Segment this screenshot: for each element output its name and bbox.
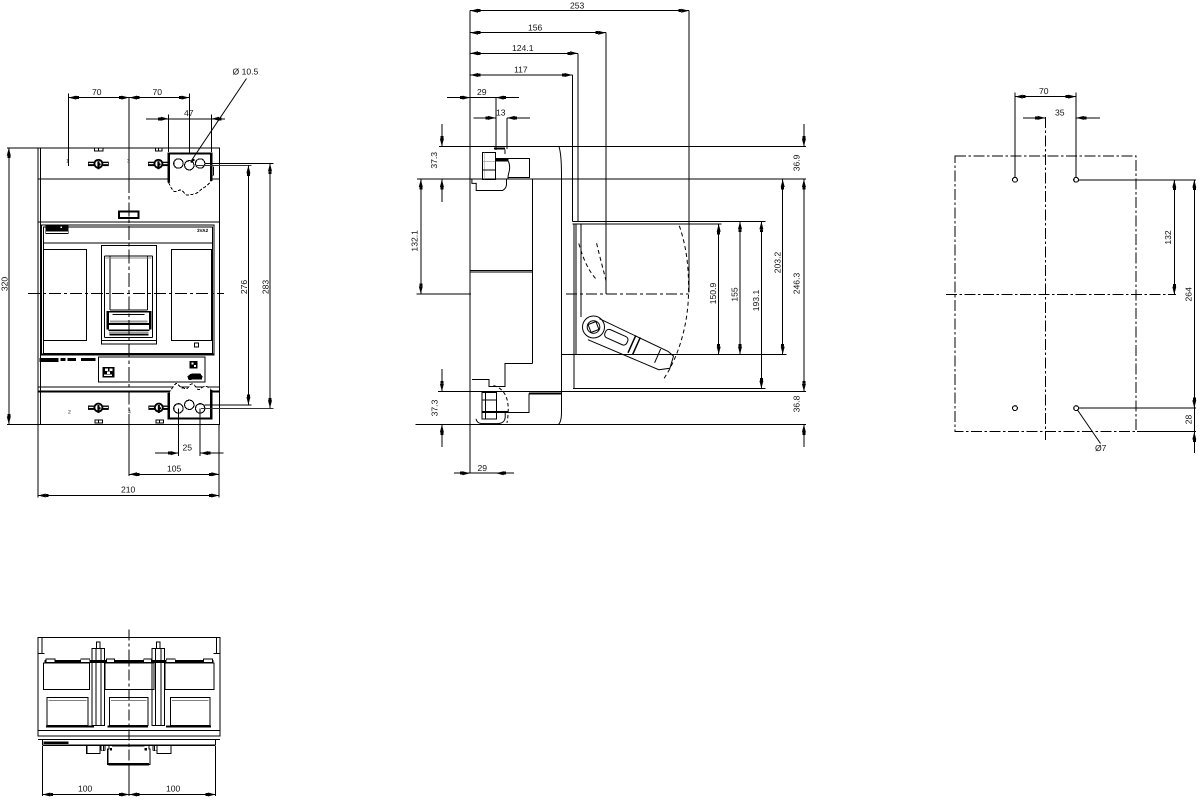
dim 28 <box>1137 431 1196 433</box>
terminal shelf plane <box>417 178 806 180</box>
front plate top edge <box>572 221 765 223</box>
hanging block left <box>87 746 100 754</box>
hanging block right <box>157 746 171 754</box>
dim 132.1 <box>417 293 471 295</box>
dim 283 <box>269 164 271 409</box>
handle travel arc right <box>663 226 689 380</box>
corner notch right <box>215 638 217 654</box>
cable slots <box>46 659 213 662</box>
rating window right <box>171 249 211 340</box>
seal blob <box>188 373 203 379</box>
bottom plane <box>416 423 806 425</box>
DIN clip top: tab <box>494 148 505 150</box>
terminal screw bottom right <box>148 404 169 413</box>
upper cavity pole 1 <box>44 663 90 690</box>
svg-text:70: 70 <box>92 87 102 97</box>
bottom step thick edge <box>529 392 562 394</box>
bottom vent slot right <box>156 420 164 423</box>
fixing hole bottom right <box>1074 406 1079 411</box>
dim 105 <box>218 424 220 497</box>
dim 25 <box>177 409 179 457</box>
svg-text:132.1: 132.1 <box>409 230 419 252</box>
svg-text:13: 13 <box>496 108 506 118</box>
dim ext right <box>215 746 217 796</box>
trip unit cover face <box>573 224 575 389</box>
svg-text:246.3: 246.3 <box>792 273 802 295</box>
dim 132 <box>1173 180 1175 295</box>
DIN clip top: side block <box>508 158 529 177</box>
dim 117 <box>470 74 572 76</box>
dim 29 bottom <box>454 472 470 474</box>
svg-text:203.2: 203.2 <box>772 252 782 274</box>
svg-text:100: 100 <box>78 784 93 794</box>
terminal hole centre (top) <box>185 161 194 170</box>
rear block bottom staircase <box>472 364 533 387</box>
dim 47 <box>168 115 170 153</box>
front plate face 117 <box>571 75 573 222</box>
DIN clip top: foot <box>472 179 507 190</box>
terminal hole left (bottom) <box>174 404 183 413</box>
detail bubble top: break wave <box>169 181 212 195</box>
svg-text:36.8: 36.8 <box>792 395 802 412</box>
dim 36.9 <box>803 124 805 147</box>
bottom step <box>508 393 529 412</box>
base bottom plane <box>438 391 806 393</box>
small slots left <box>101 746 105 751</box>
svg-text:155: 155 <box>730 287 740 302</box>
dim 320 <box>7 147 38 149</box>
svg-text:35: 35 <box>1055 108 1065 118</box>
black product label <box>46 226 69 232</box>
svg-text:29: 29 <box>477 87 487 97</box>
DIN rail dashed arc <box>494 386 509 423</box>
mounting flange <box>43 740 216 746</box>
dim 100 right <box>129 794 216 796</box>
dim 36.8 <box>803 424 805 447</box>
terminal screw bottom left <box>88 404 109 413</box>
horizontal centerline <box>28 293 224 295</box>
svg-text:156: 156 <box>528 22 543 32</box>
svg-text:Ø 10.5: Ø 10.5 <box>233 67 259 77</box>
dim 253 <box>470 10 689 12</box>
svg-text:193.1: 193.1 <box>751 290 761 312</box>
svg-text:320: 320 <box>0 277 10 292</box>
top vent slot left <box>95 148 103 151</box>
svg-text:28: 28 <box>1184 415 1194 425</box>
svg-text:36.9: 36.9 <box>792 154 802 171</box>
dim 210 <box>37 424 39 497</box>
terminal hole right (top) <box>196 159 205 168</box>
DIN clip top: thick bar <box>496 158 508 161</box>
dim 124.1 <box>470 52 578 54</box>
pole separator right <box>152 642 165 726</box>
test button square <box>194 343 198 347</box>
extension line 276 bottom <box>204 404 251 406</box>
escutcheon face 124.1 <box>577 53 579 221</box>
svg-text:105: 105 <box>167 464 182 474</box>
front view left inner edge <box>40 148 42 425</box>
bottom vent slot left <box>95 420 103 423</box>
detail bubble bottom: white mask <box>169 384 212 419</box>
small icon <box>189 361 197 369</box>
lower joint line <box>38 386 219 388</box>
top terminal strip bottom line <box>38 178 219 180</box>
handle max plane 156 <box>605 33 607 294</box>
dim 193.1 <box>760 222 762 389</box>
escutcheon bottom line <box>101 339 156 341</box>
pole separator left <box>92 642 104 726</box>
lower cavity pole 2 <box>110 698 149 726</box>
handle band <box>628 335 636 352</box>
dim 276 <box>247 165 249 404</box>
handle shaft <box>588 319 674 370</box>
case parting lines <box>471 270 533 272</box>
dim ext left <box>42 746 44 796</box>
hole extension top <box>1078 179 1196 181</box>
dim 37.3 bottom <box>441 369 443 392</box>
dim 100 left <box>43 794 130 796</box>
bottom view centerline <box>128 630 130 765</box>
detail bubble bottom: thick frame <box>169 390 212 418</box>
bottom view body outline <box>38 638 220 736</box>
svg-text:276: 276 <box>239 280 249 295</box>
front view case outline <box>38 148 219 425</box>
handle slot <box>604 328 630 346</box>
top vent slot right <box>155 148 162 151</box>
case front face <box>559 147 562 425</box>
terminal screw top right <box>148 160 169 169</box>
trip unit bottom edge <box>573 388 765 390</box>
bottom terminal strip top line <box>38 390 219 392</box>
window rect above handle <box>119 211 138 218</box>
center tab <box>108 746 150 765</box>
lower cavity pole 3 <box>170 698 210 726</box>
extension line 283 top <box>205 163 274 165</box>
flange black bar <box>44 742 69 744</box>
label strip line <box>43 242 212 244</box>
molding joint line <box>38 221 219 223</box>
DIN clip bottom: block <box>482 393 497 419</box>
hole extension bottom <box>1078 407 1196 409</box>
terminal hole centre (bottom) <box>185 400 194 409</box>
dim 70 left <box>67 94 69 167</box>
handle tip line <box>655 349 661 363</box>
handle boss outer <box>583 316 605 338</box>
escutcheon side line <box>580 224 582 317</box>
extension line 276 top <box>197 164 251 166</box>
terminal hole right (bottom) <box>196 404 205 413</box>
lower cavity pole 1 <box>47 698 88 726</box>
svg-text:29: 29 <box>478 463 488 473</box>
svg-text:Ø7: Ø7 <box>1095 443 1107 453</box>
strip label text bars <box>40 358 59 362</box>
toggle handle grip <box>106 312 151 335</box>
svg-text:70: 70 <box>1039 86 1049 96</box>
leader dia 7 <box>1078 410 1101 444</box>
handle slot frame <box>104 255 152 257</box>
dim 13 <box>506 118 508 149</box>
dim 155 <box>739 222 741 355</box>
dim 203.2 <box>782 179 784 354</box>
detail bubble bottom: break wave <box>169 383 212 393</box>
front plate bottom thick bar <box>41 353 214 355</box>
handle boss square <box>588 322 599 333</box>
dim 35 <box>1023 117 1046 119</box>
bottom thick bars <box>46 725 94 727</box>
upper cavity pole 3 <box>165 663 214 690</box>
DIN clip bottom: thick bar <box>482 411 508 413</box>
upper cavity pole 2 <box>105 663 154 690</box>
svg-text:264: 264 <box>1184 287 1194 302</box>
centerline vertical pole 2 <box>128 98 130 180</box>
drilling plan outline <box>955 156 1136 432</box>
svg-text:124.1: 124.1 <box>512 43 534 53</box>
dim 37.3 top <box>439 146 470 148</box>
dim 29 top <box>495 98 497 150</box>
svg-text:100: 100 <box>166 784 181 794</box>
handle centerline <box>566 293 689 295</box>
fixing hole top left <box>1013 177 1018 182</box>
svg-text:150.9: 150.9 <box>708 283 718 305</box>
fixing hole top right <box>1074 177 1079 182</box>
small slots right <box>153 746 157 751</box>
handle travel arc left b <box>597 243 607 282</box>
DIN clip top: block <box>483 152 496 179</box>
detail bubble top: thick frame <box>169 154 212 183</box>
DIN clip bottom: foot <box>476 413 505 424</box>
svg-text:37.3: 37.3 <box>429 152 439 169</box>
terminal shelf thick bar <box>45 660 214 663</box>
flange bottom edge <box>43 744 216 746</box>
svg-text:132: 132 <box>1163 230 1173 245</box>
svg-text:3VA2: 3VA2 <box>197 228 209 233</box>
top surface plane <box>439 146 806 148</box>
terminal hole left (top) <box>174 159 183 168</box>
plan vertical centerline <box>1044 117 1046 440</box>
svg-text:283: 283 <box>260 280 270 295</box>
plan horizontal centerline <box>946 294 1176 296</box>
breaker front plane 253 <box>688 11 690 293</box>
front plate outer <box>41 225 214 355</box>
detail bubble top: white mask <box>169 154 212 196</box>
extension line 283 bottom <box>201 407 274 409</box>
dim 150.9 <box>718 224 720 355</box>
svg-text:70: 70 <box>153 87 163 97</box>
svg-text:210: 210 <box>121 485 136 495</box>
handle boss inner <box>587 321 600 334</box>
svg-text:253: 253 <box>570 0 585 10</box>
dim 70 <box>1014 93 1016 178</box>
body lower lines <box>38 730 220 732</box>
svg-text:25: 25 <box>183 442 193 452</box>
dim 70 right <box>188 94 190 153</box>
dim 156 <box>470 32 606 34</box>
fixing hole bottom left <box>1013 406 1018 411</box>
mounting plane / left edge <box>469 11 471 474</box>
handle escutcheon <box>101 246 156 344</box>
front plate bottom plane <box>562 353 787 355</box>
front plate top edge lower <box>572 223 721 225</box>
svg-text:37.3: 37.3 <box>430 399 440 416</box>
dim 264 <box>1193 180 1195 408</box>
rating window left <box>43 249 86 340</box>
accessory strip box <box>99 357 206 382</box>
rear block front edge <box>531 179 533 363</box>
svg-text:47: 47 <box>184 108 194 118</box>
handle travel arc left a <box>579 244 598 281</box>
corner notch left <box>41 638 43 654</box>
terminal screw top left <box>88 160 109 169</box>
leader diameter 10.5 <box>192 79 247 161</box>
front plate inner <box>43 227 212 353</box>
svg-text:2: 2 <box>68 410 71 416</box>
DIN clip top: right bulge <box>508 161 510 179</box>
svg-text:117: 117 <box>514 65 528 75</box>
certification icon <box>103 367 115 378</box>
dim 246.3 <box>803 179 805 391</box>
